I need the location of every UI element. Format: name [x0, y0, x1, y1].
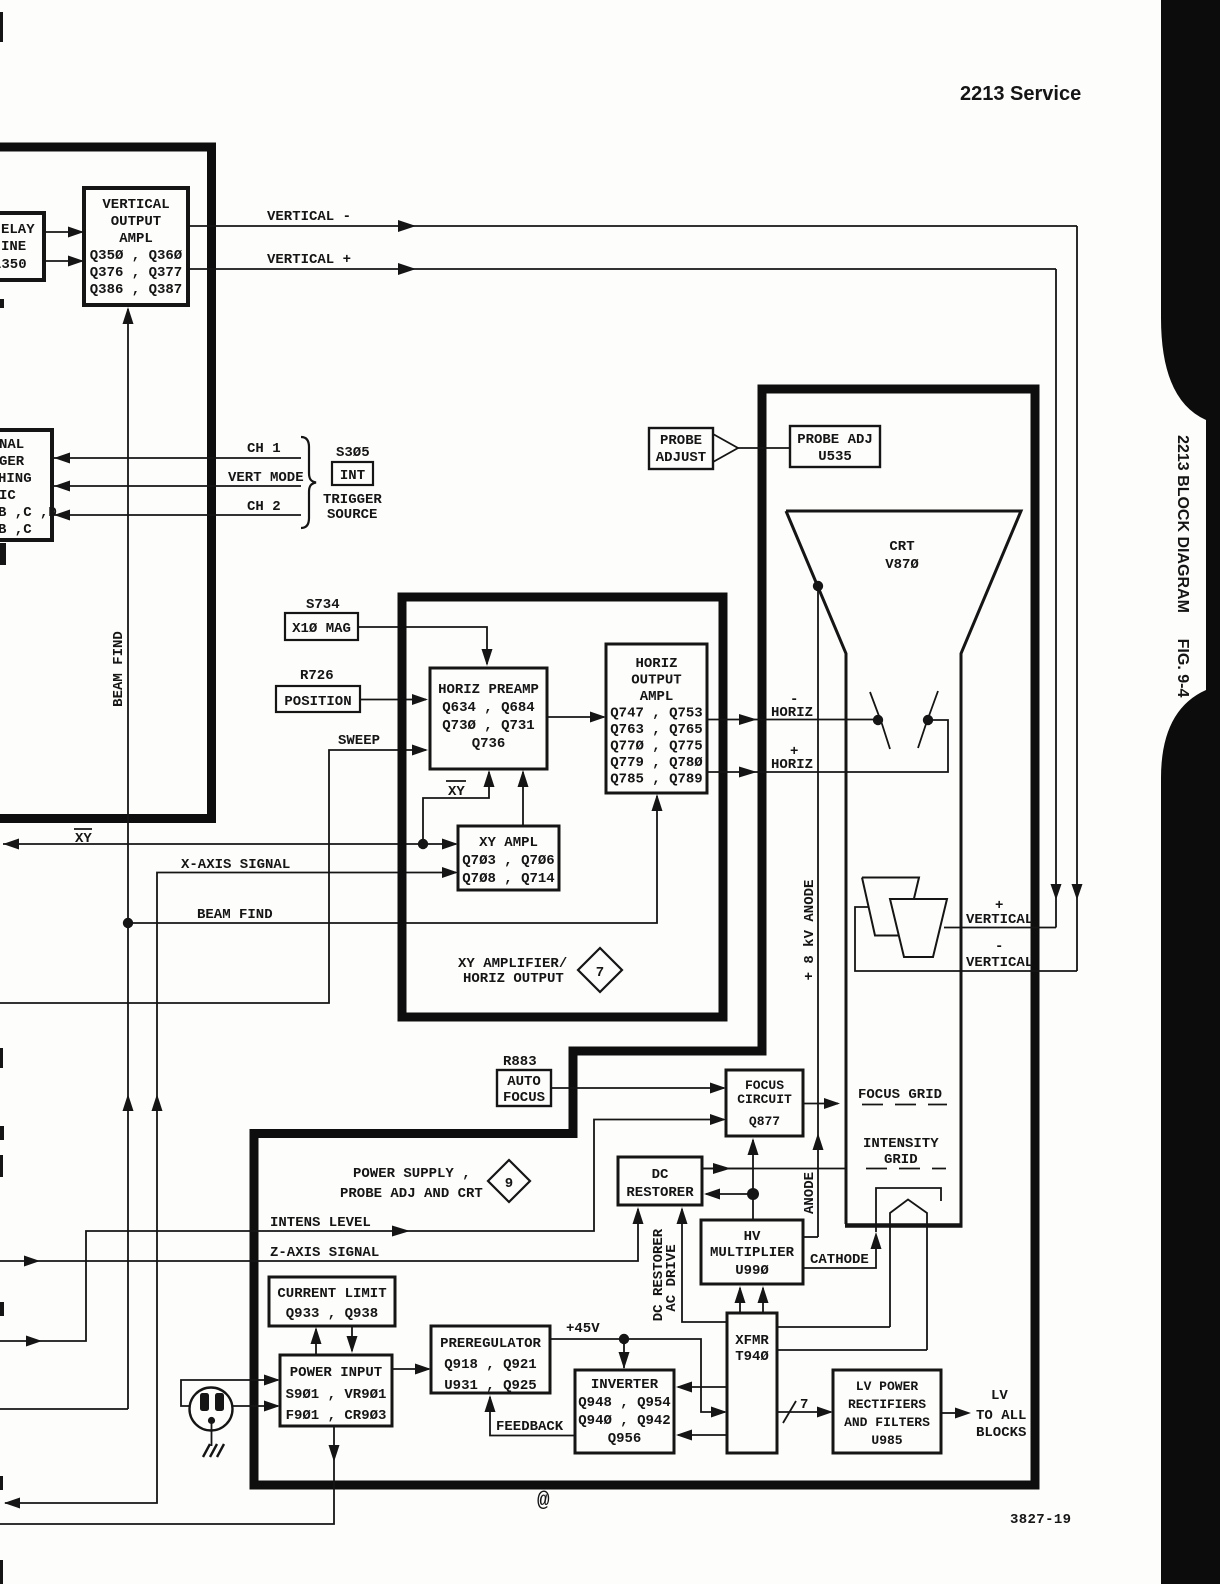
svg-text:INVERTER: INVERTER: [591, 1377, 659, 1393]
junction dot +45V: [619, 1334, 629, 1344]
block XFMR T940 box: [727, 1313, 777, 1453]
svg-text:GRID: GRID: [884, 1152, 918, 1168]
svg-text:Q386 , Q387: Q386 , Q387: [90, 282, 182, 298]
wire INTENS LEVEL feed from page edge to focus circuit: [0, 1120, 724, 1342]
svg-text:TRIGGER: TRIGGER: [323, 492, 382, 508]
svg-text:B ,C: B ,C: [0, 522, 32, 538]
wire horiz preamp to horiz output ampl: [547, 716, 604, 718]
svg-text:Q376 , Q377: Q376 , Q377: [90, 265, 182, 281]
side index tab: white notch: [1161, 318, 1206, 778]
diamond 9: [488, 1160, 530, 1202]
delay line box (cut off at page edge): [0, 213, 44, 280]
wire xfmr to inverter (lower): [678, 1434, 727, 1436]
svg-text:HORIZ: HORIZ: [771, 757, 813, 773]
block HORIZ OUTPUT AMPL box: [606, 644, 707, 793]
svg-text:Q779 , Q78Ø: Q779 , Q78Ø: [610, 755, 703, 771]
wire SWEEP into horiz preamp: [0, 750, 426, 1003]
svg-text:INE: INE: [1, 239, 26, 255]
wire FEEDBACK from inverter to preregulator: [490, 1397, 575, 1436]
wire xfmr LV output to rectifiers: [777, 1411, 831, 1413]
wire tap into dc restorer right side: [706, 1193, 753, 1195]
wire - HORIZ from horiz output ampl to left plate: [707, 719, 878, 721]
svg-text:FIG. 9-4: FIG. 9-4: [1174, 639, 1191, 698]
wire power input to preregulator: [392, 1368, 429, 1370]
svg-text:IC: IC: [0, 488, 16, 504]
svg-text:NAL: NAL: [0, 437, 24, 453]
wire current limit to power input: [351, 1326, 353, 1351]
svg-text:RESTORER: RESTORER: [626, 1185, 694, 1201]
block LV POWER RECTIFIERS AND FILTERS box: [833, 1370, 941, 1453]
svg-text:7: 7: [596, 965, 604, 981]
svg-text:VERT MODE: VERT MODE: [228, 470, 304, 486]
wire beam find feed from page edge: [0, 1408, 128, 1410]
wire VERTICAL + column down right side: [1055, 269, 1057, 928]
svg-text:INTENSITY: INTENSITY: [863, 1136, 939, 1152]
block DC RESTORER box: [618, 1157, 702, 1205]
wire X10 MAG to horiz preamp top: [358, 627, 487, 664]
CRT V870 funnel outline: [786, 511, 1021, 1224]
cathode cup: [876, 1188, 941, 1232]
svg-text:VERTICAL: VERTICAL: [966, 912, 1033, 928]
AC plug symbol: [190, 1388, 233, 1431]
svg-text:Q747 , Q753: Q747 , Q753: [610, 706, 702, 722]
svg-text:Q918 , Q921: Q918 , Q921: [444, 1357, 536, 1373]
wire delay line to ampl (lower): [44, 260, 82, 262]
svg-text:PROBE: PROBE: [660, 433, 702, 449]
svg-text:ADJUST: ADJUST: [656, 450, 706, 466]
svg-text:POWER SUPPLY ,: POWER SUPPLY ,: [353, 1166, 471, 1182]
junction dot on funnel (anode): [813, 581, 823, 591]
wire power input down and out page edge: [0, 1426, 334, 1524]
svg-text:HORIZ PREAMP: HORIZ PREAMP: [438, 682, 539, 698]
svg-text:XY AMPL: XY AMPL: [479, 835, 538, 851]
svg-text:Q736: Q736: [472, 736, 506, 752]
svg-text:GER: GER: [0, 454, 25, 470]
svg-text:S734: S734: [306, 597, 340, 613]
svg-text:9: 9: [505, 1176, 513, 1192]
svg-text:7: 7: [800, 1397, 808, 1413]
svg-text:CATHODE: CATHODE: [810, 1252, 869, 1268]
wire delay line to ampl (upper): [44, 231, 82, 233]
svg-text:U535: U535: [818, 449, 852, 465]
svg-text:-: -: [995, 939, 1003, 955]
svg-text:SWEEP: SWEEP: [338, 733, 380, 749]
svg-text:AND FILTERS: AND FILTERS: [844, 1415, 930, 1430]
svg-text:+ 8 kV ANODE: + 8 kV ANODE: [802, 880, 818, 981]
switch X10 MAG box: [285, 613, 358, 640]
svg-text:VERTICAL: VERTICAL: [966, 955, 1033, 971]
svg-text:FEEDBACK: FEEDBACK: [496, 1419, 564, 1435]
svg-text:U931 , Q925: U931 , Q925: [444, 1378, 536, 1394]
svg-text:OUTPUT: OUTPUT: [111, 214, 161, 230]
trigger logic box (cut off at page edge): [0, 430, 52, 540]
block INVERTER box: [575, 1370, 674, 1453]
svg-text:S9Ø1 , VR9Ø1: S9Ø1 , VR9Ø1: [286, 1387, 387, 1403]
block HORIZ PREAMP box: [430, 668, 547, 769]
brace for trigger source: [301, 437, 316, 528]
svg-text:FOCUS GRID: FOCUS GRID: [858, 1087, 942, 1103]
block HV MULTIPLIER box: [701, 1220, 803, 1284]
svg-text:3827-19: 3827-19: [1010, 1512, 1071, 1528]
svg-text:POWER INPUT: POWER INPUT: [290, 1365, 382, 1381]
svg-text:PREREGULATOR: PREREGULATOR: [440, 1336, 541, 1352]
svg-text:CH 1: CH 1: [247, 441, 281, 457]
svg-text:PROBE ADJ AND CRT: PROBE ADJ AND CRT: [340, 1186, 483, 1202]
svg-text:CURRENT LIMIT: CURRENT LIMIT: [277, 1286, 386, 1302]
svg-text:AC DRIVE: AC DRIVE: [664, 1244, 680, 1311]
block PROBE ADJUST box: [649, 428, 713, 469]
wire Z-AXIS SIGNAL from page edge to dc restorer: [0, 1209, 638, 1261]
bus slash 7 marker: [783, 1401, 796, 1423]
svg-text:XY: XY: [448, 784, 465, 800]
wire probe adjust to probe adj: [738, 447, 790, 449]
svg-text:Q94Ø , Q942: Q94Ø , Q942: [578, 1413, 670, 1429]
block XY AMPL box: [458, 826, 559, 890]
svg-text:Q763 , Q765: Q763 , Q765: [610, 722, 702, 738]
svg-text:F9Ø1 , CR9Ø3: F9Ø1 , CR9Ø3: [286, 1408, 387, 1424]
junction dot on riser: [747, 1188, 759, 1200]
svg-text:Q877: Q877: [749, 1114, 780, 1129]
wire +45V tap down to inverter: [623, 1339, 625, 1368]
vertical output ampl box U-amp: [84, 188, 188, 305]
svg-text:Q7Ø3 , Q7Ø6: Q7Ø3 , Q7Ø6: [462, 853, 554, 869]
svg-text:PROBE ADJ: PROBE ADJ: [797, 432, 873, 448]
svg-text:LV POWER: LV POWER: [856, 1379, 919, 1394]
svg-text:MULTIPLIER: MULTIPLIER: [710, 1245, 795, 1261]
svg-text:DC: DC: [652, 1167, 669, 1183]
svg-text:HORIZ OUTPUT: HORIZ OUTPUT: [463, 971, 564, 987]
horizontal deflection plate (right) with dot: [918, 691, 938, 748]
wire beam find vertical riser to vertical output ampl: [127, 309, 129, 1409]
wire VERTICAL + output: [188, 268, 1056, 270]
block POWER INPUT box: [280, 1355, 392, 1426]
wire XY line with exit arrow at page edge: [3, 843, 456, 845]
svg-text:BLOCKS: BLOCKS: [976, 1425, 1026, 1441]
svg-text:X1Ø MAG: X1Ø MAG: [292, 621, 351, 637]
svg-text:T94Ø: T94Ø: [735, 1349, 769, 1365]
svg-text:2213 Service: 2213 Service: [960, 83, 1081, 105]
svg-text:B ,C ,D: B ,C ,D: [0, 505, 57, 521]
wire HV mult anode output: [803, 1236, 818, 1238]
svg-text:U985: U985: [871, 1433, 902, 1448]
svg-text:OUTPUT: OUTPUT: [631, 673, 681, 689]
svg-text:CIRCUIT: CIRCUIT: [737, 1092, 792, 1107]
svg-text:X-AXIS SIGNAL: X-AXIS SIGNAL: [181, 857, 290, 873]
svg-text:Q7Ø8 , Q714: Q7Ø8 , Q714: [462, 871, 554, 887]
wire VERTICAL - column down right side: [1076, 226, 1078, 971]
wire CH 2 into trigger logic: [54, 514, 301, 516]
dashed focus grid electrode: [862, 1104, 947, 1106]
wire X-AXIS SIGNAL: [5, 873, 456, 1504]
wire power input to current limit: [315, 1329, 317, 1355]
svg-text:POSITION: POSITION: [284, 694, 351, 710]
wire xfmr to hv multiplier (right): [762, 1288, 764, 1313]
svg-text:+45V: +45V: [566, 1321, 600, 1337]
svg-text:S3Ø5: S3Ø5: [336, 445, 370, 461]
wire XY AMPL to horiz preamp: [522, 772, 524, 826]
wire +45V from preregulator to xfmr: [550, 1339, 725, 1412]
svg-text:Q956: Q956: [608, 1431, 642, 1447]
wire VERT MODE into trigger logic: [54, 485, 301, 487]
wire riser HV mult to focus circuit: [752, 1140, 754, 1220]
svg-text:AMPL: AMPL: [640, 689, 674, 705]
svg-text:VERTICAL +: VERTICAL +: [267, 252, 351, 268]
svg-text:INTENS LEVEL: INTENS LEVEL: [270, 1215, 371, 1231]
svg-text:AUTO: AUTO: [507, 1074, 541, 1090]
wire xfmr to inverter (upper): [678, 1386, 727, 1388]
container: XY amplifier / horiz output (thick box): [402, 597, 723, 1017]
svg-text:Q634 , Q684: Q634 , Q684: [442, 700, 534, 716]
container: vertical output section (thick open box, top-left): [0, 147, 212, 819]
wire focus circuit to focus grid: [803, 1103, 838, 1105]
svg-text:R883: R883: [503, 1054, 537, 1070]
wire CH 1 into trigger logic: [54, 457, 301, 459]
wire xfmr to hv multiplier (left): [739, 1288, 741, 1313]
diamond 7: [578, 948, 622, 992]
wire auto focus to focus circuit: [551, 1087, 724, 1089]
svg-text:HORIZ: HORIZ: [635, 656, 677, 672]
block CURRENT LIMIT box: [269, 1277, 395, 1326]
svg-text:Q785 , Q789: Q785 , Q789: [610, 772, 702, 788]
svg-text:VERTICAL -: VERTICAL -: [267, 209, 351, 225]
connector chevron: [713, 434, 738, 462]
svg-text:ELAY: ELAY: [1, 222, 35, 238]
svg-text:Q77Ø , Q775: Q77Ø , Q775: [610, 739, 702, 755]
wire plug to power input (upper): [181, 1380, 278, 1406]
block PROBE ADJ U535 box: [790, 426, 880, 467]
svg-text:FOCUS: FOCUS: [745, 1078, 784, 1093]
junction dot XY line: [418, 839, 428, 849]
heater element: [890, 1200, 927, 1351]
wire - VERTICAL to rear plate: [855, 907, 1077, 971]
switch INT box: [332, 462, 373, 485]
svg-text:U99Ø: U99Ø: [735, 1263, 769, 1279]
svg-text:CH 2: CH 2: [247, 499, 281, 515]
block FOCUS CIRCUIT box: [726, 1070, 803, 1136]
block PREREGULATOR box: [431, 1326, 550, 1393]
block AUTO FOCUS box: [497, 1070, 551, 1106]
wire CATHODE from HV multiplier: [803, 1238, 876, 1268]
svg-text:V87Ø: V87Ø: [885, 557, 919, 573]
svg-text:BEAM FIND: BEAM FIND: [197, 907, 273, 923]
side index tab: black bar: [1161, 0, 1220, 1584]
svg-text:Z-AXIS SIGNAL: Z-AXIS SIGNAL: [270, 1245, 379, 1261]
ground symbol: [211, 1424, 213, 1446]
svg-text:XY AMPLIFIER/: XY AMPLIFIER/: [458, 956, 567, 972]
svg-text:VERTICAL: VERTICAL: [102, 197, 169, 213]
wire + VERTICAL to front plate: [944, 927, 1056, 929]
svg-text:RECTIFIERS: RECTIFIERS: [848, 1397, 926, 1412]
svg-text:R726: R726: [300, 668, 334, 684]
CRT base line: [845, 1223, 963, 1228]
svg-text:SOURCE: SOURCE: [327, 507, 377, 523]
vertical deflection plate (rear): [862, 878, 919, 936]
wire LV output: [941, 1412, 955, 1414]
svg-text:BEAM FIND: BEAM FIND: [111, 631, 127, 707]
wire +8kV anode line: [817, 586, 819, 1237]
svg-text:2213 BLOCK DIAGRAM: 2213 BLOCK DIAGRAM: [1174, 435, 1191, 613]
svg-text:Q948 , Q954: Q948 , Q954: [578, 1395, 670, 1411]
vertical deflection plate (front): [890, 899, 947, 957]
svg-text:XY: XY: [75, 831, 92, 847]
junction dot beam find: [123, 918, 133, 928]
svg-text:AMPL: AMPL: [119, 231, 153, 247]
wire XY-bar branch up to horiz preamp: [423, 772, 489, 844]
wire dc restorer output to focus circuit riser: [702, 1168, 753, 1170]
wire POSITION to horiz preamp: [360, 699, 426, 701]
svg-text:FOCUS: FOCUS: [503, 1090, 545, 1106]
dashed intensity grid electrode: [866, 1168, 946, 1170]
wire AC drive line to dc restorer: [682, 1209, 727, 1322]
wire VERTICAL - output: [188, 225, 1077, 227]
potentiometer POSITION box: [276, 686, 360, 712]
svg-text:XFMR: XFMR: [735, 1333, 769, 1349]
svg-text:HORIZ: HORIZ: [771, 705, 813, 721]
svg-text:LV: LV: [991, 1388, 1008, 1404]
svg-text:@: @: [537, 1490, 550, 1513]
wire + HORIZ from horiz output ampl to right plate: [707, 720, 948, 772]
svg-text:Q73Ø , Q731: Q73Ø , Q731: [442, 718, 534, 734]
horizontal deflection plate (left) with dot: [870, 692, 890, 749]
wire heater legs to transformer: [777, 1326, 890, 1328]
svg-text:INT: INT: [340, 468, 365, 484]
svg-text:TO ALL: TO ALL: [976, 1408, 1026, 1424]
svg-text:Q933 , Q938: Q933 , Q938: [286, 1306, 378, 1322]
svg-text:ANODE: ANODE: [802, 1172, 818, 1214]
wire BEAM FIND horizontal to horiz output ampl: [128, 796, 657, 923]
svg-text:L350: L350: [0, 257, 27, 273]
svg-text:CRT: CRT: [889, 539, 914, 555]
wire z-axis feed to intensity grid: [702, 1168, 847, 1170]
container: power supply, probe adj and CRT (thick outline polygon): [254, 389, 1035, 1485]
wire plug to power input (lower): [233, 1405, 278, 1407]
svg-text:HV: HV: [744, 1229, 761, 1245]
svg-text:HING: HING: [0, 471, 32, 487]
svg-text:Q35Ø , Q36Ø: Q35Ø , Q36Ø: [90, 248, 183, 264]
page edge scan marks: [0, 12, 3, 42]
